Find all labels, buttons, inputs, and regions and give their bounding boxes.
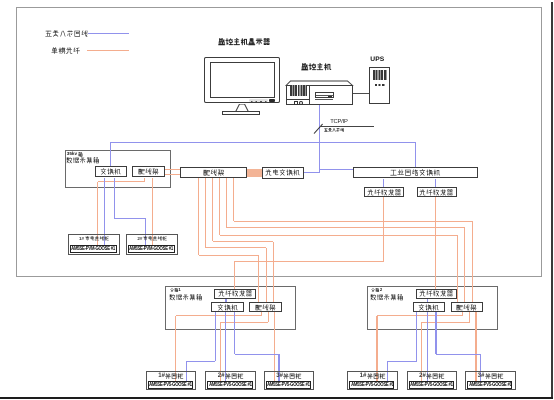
sub-box 1 transceiver-switch link (225, 299, 226, 302)
fsb1 cat5 drop2 (225, 312, 226, 381)
sub-box 1 container (165, 286, 296, 330)
fsb2 cat5 tap1 (416, 312, 417, 361)
fsb1 cat5 drop3 (278, 354, 279, 381)
fsb1 cat5 run3 (235, 354, 279, 355)
fiber transL jog left (234, 261, 384, 262)
label cat5 small (324, 128, 344, 132)
fsb2 fiber drop3 (475, 312, 476, 381)
fiber transceiver top-R (417, 187, 457, 197)
ups grille (373, 70, 388, 80)
fsb1 fiber run1 (176, 315, 262, 316)
monitor stand base (222, 111, 260, 114)
ups buttons (375, 84, 385, 86)
wire host down blue (319, 105, 320, 173)
tcpip bus line (321, 125, 374, 128)
label data-collection-box-1 (66, 157, 100, 164)
grid cabinet R1 inner unit (349, 381, 394, 390)
grid cabinet R1 label (347, 373, 398, 379)
page right edge (551, 2, 553, 398)
fiber 35kv tap (144, 178, 145, 182)
cat5 to market1 (104, 178, 105, 245)
market cabinet 1 outer (68, 234, 120, 255)
fiber to market1 (97, 182, 98, 245)
fiber stair 1 fall (258, 255, 259, 302)
host floppy slot (316, 94, 334, 97)
host tiny switch (294, 101, 299, 105)
grid cabinet L2 label (205, 373, 256, 379)
wire ind-switch to transceiver R (435, 179, 436, 188)
page bottom edge (0, 397, 553, 399)
host panel line (286, 98, 309, 101)
host grille (290, 85, 307, 95)
fsb1 cat5 drop1 (186, 361, 187, 381)
fiber stair 2 run (206, 247, 267, 248)
sub-box 2 switch (413, 302, 446, 312)
grid cabinet L3 label (264, 373, 315, 379)
fsb2 fiber tap2 (469, 312, 470, 322)
monitor power block (269, 99, 275, 102)
fiber 35kv-panel to mid-panel A (165, 169, 180, 170)
market cabinet 2 inner unit (128, 245, 175, 254)
fiber stair 2 drop (205, 178, 206, 248)
grid cabinet R3 outer (465, 371, 516, 390)
grid cabinet R2 outer (407, 371, 458, 390)
market cabinet 2 label (126, 236, 178, 241)
fiber stair 4 fall (457, 235, 458, 302)
cat5 market2 jog (114, 218, 145, 219)
fiber band (247, 169, 262, 177)
sub-box 1 small label (170, 288, 181, 292)
sub-box 1 patch panel (249, 302, 282, 312)
fsb2 cat5 run3 (436, 354, 480, 355)
monitor screen (210, 62, 276, 98)
fsb2 cat5 tap3 (435, 312, 436, 354)
fsb2 fiber tap1 (462, 312, 463, 315)
35kv collection box (65, 150, 171, 188)
grid cabinet R1 outer (347, 371, 398, 390)
wire riser at switch-box (110, 142, 111, 166)
fiber stair 3 run (213, 241, 274, 242)
fsb1 fiber drop1 (175, 316, 176, 382)
legend label cat5 cable (45, 30, 88, 37)
fsb1 fiber drop2 (220, 322, 221, 381)
fiber stair 1 run (199, 255, 259, 256)
switch box 35kv (95, 166, 128, 177)
patch panel 35kv (132, 166, 165, 177)
fiber stair 6 drop (233, 178, 234, 221)
grid cabinet R3 label (465, 373, 516, 379)
tcpip slash (313, 123, 324, 135)
monitor button bar (249, 99, 268, 102)
sub-box 2 small label (371, 288, 382, 292)
host lower slot (315, 98, 333, 101)
fsb1 cat5 run1 (186, 361, 215, 362)
fsb1 cat5 tap1 (215, 312, 216, 361)
fiber stair 4 drop (219, 178, 220, 235)
grid cabinet R2 label (407, 373, 458, 379)
fsb2 cat5 run1 (388, 361, 417, 362)
host top face (285, 80, 355, 87)
host tiny led (299, 101, 303, 105)
grid cabinet L1 outer (146, 371, 197, 390)
fiber 35kv-panel to mid-panel B (165, 174, 180, 175)
legend cat5 blue line (88, 33, 130, 35)
fiber transL down (383, 197, 384, 262)
fsb2 fiber drop1 (376, 316, 377, 382)
grid cabinet L2 outer (205, 371, 256, 390)
sub-box 2 name (370, 294, 404, 301)
sub-box 1 name (169, 294, 203, 301)
legend label single-mode fiber (51, 47, 80, 54)
fiber transceiver top-L (364, 187, 404, 197)
monitor bezel (204, 57, 280, 103)
fiber stair 4 run (220, 235, 458, 236)
fsb2 fiber run1 (377, 315, 463, 316)
wire photo-switch to host-line (304, 172, 320, 173)
fsb2 fiber run2 (422, 322, 470, 323)
grid cabinet L3 outer (264, 371, 315, 390)
fiber stair 3 drop (212, 178, 213, 241)
label TCP/IP (330, 120, 347, 126)
label 35kv (67, 152, 83, 157)
wire top bus (111, 142, 416, 143)
market cabinet 1 label (68, 236, 120, 241)
label monitor-display (218, 38, 271, 46)
fiber transR down into fsb2 transceiver (435, 197, 436, 289)
fiber into fsb1 transceiver (234, 262, 235, 289)
fiber stair 5 fall (464, 228, 465, 302)
cat5 market2 drop (114, 178, 115, 219)
photoelectric switch (262, 167, 304, 179)
ups body (369, 67, 390, 104)
legend fiber orange line (87, 50, 129, 52)
wire drop to industrial-switch (415, 142, 416, 167)
fiber stair 2 fall (266, 248, 267, 303)
industrial network switch (353, 167, 477, 178)
grid cabinet L2 inner unit (207, 381, 252, 390)
fsb2 cat5 drop3 (480, 354, 481, 381)
host divider (309, 85, 310, 105)
fiber stair 1 drop (198, 178, 199, 255)
label host (301, 63, 331, 71)
fsb1 fiber tap1 (261, 312, 262, 315)
sub-box 2 transceiver-switch link (427, 299, 428, 302)
fsb1 fiber run2 (220, 322, 268, 323)
fiber stair 5 run (227, 227, 465, 228)
fsb1 fiber drop3 (274, 312, 275, 381)
grid cabinet R2 inner unit (409, 381, 454, 390)
wire host to ups (353, 93, 369, 94)
fsb2 cat5 drop1 (387, 361, 388, 381)
sub-box 2 patch panel (451, 302, 484, 312)
fiber 35kv jog (98, 181, 145, 182)
grid cabinet L3 inner unit (266, 381, 311, 390)
grid cabinet L1 inner unit (148, 381, 193, 390)
sub-box 1 switch (211, 302, 244, 312)
host front face (286, 85, 353, 105)
grid cabinet L1 label (146, 373, 197, 379)
grid cabinet R3 inner unit (467, 381, 512, 390)
wire host-line to industrial-switch (320, 169, 354, 170)
market cabinet 2 outer (126, 234, 178, 255)
outer drawing frame (16, 7, 542, 277)
fsb1 fiber tap2 (268, 312, 269, 322)
monitor button ticks (251, 101, 267, 102)
label UPS (370, 57, 384, 64)
fsb2 fiber drop2 (421, 322, 422, 381)
fiber stair 6 run (234, 221, 473, 222)
sub-box 2 container (367, 286, 498, 330)
wire ind-switch to transceiver L (383, 179, 384, 188)
host floppy drive (315, 92, 334, 99)
monitor stand neck (230, 104, 260, 112)
fiber to market2 (152, 178, 153, 245)
patch panel middle (180, 167, 247, 178)
cat5 market2 fall (145, 218, 146, 244)
fiber stair 3 fall (273, 242, 274, 303)
sub-box 1 fiber transceiver (214, 289, 256, 299)
market cabinet 1 inner unit (70, 245, 117, 254)
fsb2 cat5 drop2 (427, 312, 428, 381)
sub-box 2 fiber transceiver (416, 289, 458, 299)
fsb1 cat5 tap3 (234, 312, 235, 354)
host floppy button (328, 96, 333, 98)
fiber stair 6 fall (472, 221, 473, 302)
fiber stair 5 drop (226, 178, 227, 228)
